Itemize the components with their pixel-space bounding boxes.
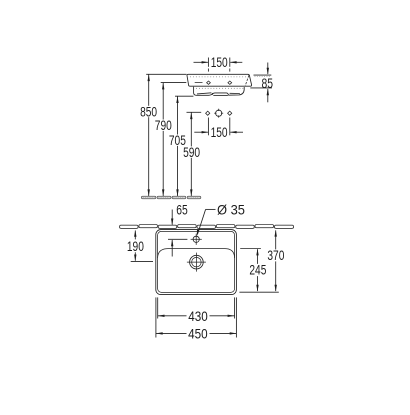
floor bar xyxy=(141,196,200,199)
dimension 590 (height to wall holes) xyxy=(183,112,201,196)
dimension 850 (height to rim top) xyxy=(140,74,186,196)
dimension 190 (wall to drain center) xyxy=(127,230,153,262)
svg-text:790: 790 xyxy=(155,117,172,133)
svg-text:450: 450 xyxy=(188,326,208,342)
basin side view rim xyxy=(187,74,252,88)
dimension 85 (side view height) xyxy=(250,63,273,103)
faucet hole diamond left (side view) xyxy=(207,81,211,84)
dimension 430 (bowl width) xyxy=(158,297,235,324)
dimension 790 (height to faucet holes) xyxy=(155,83,187,197)
rim stipple row top xyxy=(190,76,246,79)
basin plan view inner rim line xyxy=(158,231,235,292)
basin plan view outer rect xyxy=(156,230,237,295)
dimension 150 (top, faucet hole spacing side view) xyxy=(194,54,243,72)
faucet hole plan view (circle with centerlines) xyxy=(191,234,202,245)
basin side view underside xyxy=(194,87,245,96)
svg-text:190: 190 xyxy=(127,238,144,254)
svg-text:245: 245 xyxy=(249,262,266,278)
bowl top edge xyxy=(158,249,235,258)
dimension 150 (wall holes spacing) xyxy=(194,118,243,141)
svg-text:Ø 35: Ø 35 xyxy=(217,201,245,217)
hidden edge dash-dot at right end of rim xyxy=(245,75,249,86)
svg-text:370: 370 xyxy=(267,247,284,263)
svg-text:65: 65 xyxy=(176,201,188,217)
wall line (plan view, segmented) xyxy=(120,225,294,229)
hidden extension dash on rim (790 level) xyxy=(195,82,203,84)
wall mounting holes row: diamond, circle, diamond xyxy=(206,109,232,118)
svg-text:150: 150 xyxy=(211,54,228,70)
svg-text:590: 590 xyxy=(183,144,200,160)
svg-text:430: 430 xyxy=(188,308,208,324)
floor bar speckle xyxy=(143,197,200,199)
faucet hole diamond right (side view) xyxy=(228,81,232,84)
label Ø 35 with leader to faucet hole xyxy=(197,201,245,236)
dimension 245 (bowl top to basin front) xyxy=(239,249,278,293)
dimension 705 (height to underside) xyxy=(169,96,194,196)
svg-text:85: 85 xyxy=(262,75,274,91)
drain plan view (two circles with centerlines) xyxy=(187,253,206,272)
dimension 65 (wall to faucet hole) xyxy=(168,201,188,256)
dimension 450 (basin width) xyxy=(156,297,237,341)
svg-text:150: 150 xyxy=(211,124,228,140)
dimension 370 (wall to basin front) xyxy=(267,230,284,292)
rim stipple row bottom xyxy=(196,87,243,90)
